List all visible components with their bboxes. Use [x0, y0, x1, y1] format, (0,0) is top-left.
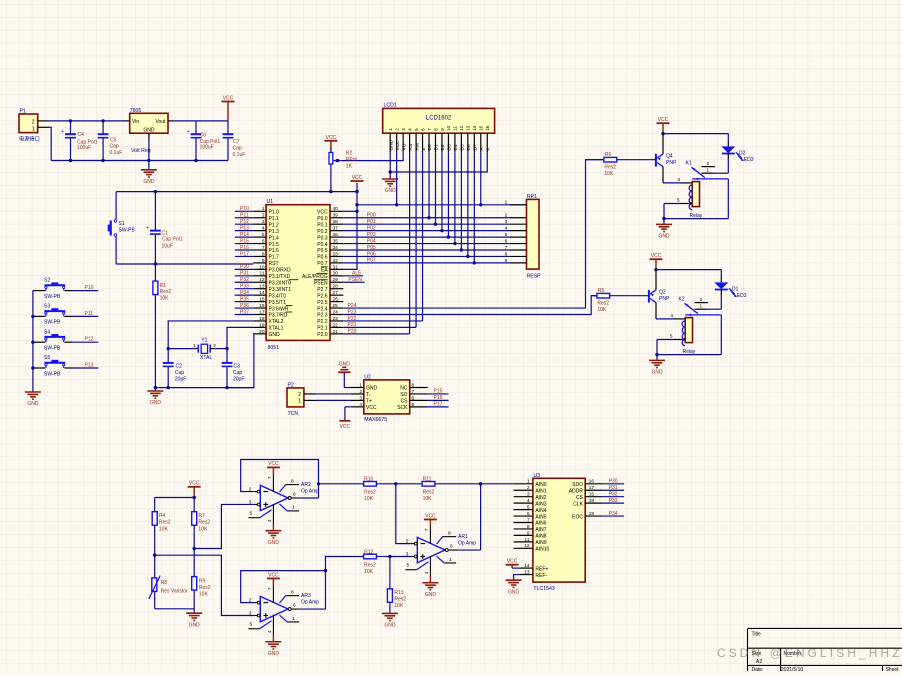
svg-text:P3.3/INT1: P3.3/INT1 — [269, 287, 292, 293]
svg-text:D0: D0 — [427, 144, 433, 150]
svg-text:100uF: 100uF — [77, 145, 91, 151]
svg-text:CS: CS — [576, 495, 584, 501]
svg-text:P1.1: P1.1 — [269, 216, 280, 222]
svg-text:26: 26 — [333, 297, 339, 303]
svg-text:6: 6 — [505, 238, 508, 244]
svg-text:P2.2: P2.2 — [317, 319, 328, 325]
potentiometer R2 — [324, 135, 357, 192]
wire bridge right tap to AR2 — [193, 504, 255, 550]
svg-text:XTAL1: XTAL1 — [269, 326, 284, 332]
svg-text:GND: GND — [143, 128, 155, 134]
op-amp AR2 — [248, 461, 319, 546]
net labels P2 control bus — [348, 303, 357, 335]
svg-text:34: 34 — [333, 245, 339, 251]
svg-text:1: 1 — [707, 167, 710, 173]
ground REF- — [506, 575, 522, 596]
svg-text:R7: R7 — [198, 513, 205, 519]
svg-text:23: 23 — [333, 316, 339, 322]
wire VCC rail from 7805 Vout — [174, 120, 228, 122]
svg-text:11: 11 — [453, 126, 458, 131]
svg-text:GND: GND — [508, 589, 520, 595]
svg-text:P2.3: P2.3 — [317, 313, 328, 319]
wires U1 P1.x pins — [235, 211, 253, 256]
ground 7805 — [141, 170, 157, 185]
svg-text:GND: GND — [425, 592, 437, 598]
svg-text:GND: GND — [385, 188, 397, 194]
svg-text:27: 27 — [333, 290, 339, 296]
svg-text:VCC: VCC — [366, 405, 377, 411]
svg-text:P15: P15 — [434, 389, 443, 395]
junction LCD gnd — [389, 170, 392, 173]
svg-text:10: 10 — [446, 125, 451, 131]
net labels U1 left P3 bus — [240, 264, 249, 315]
svg-text:电源接口: 电源接口 — [19, 135, 40, 143]
wire U1 pin20 GND down — [227, 334, 254, 388]
power VCC relay K1 — [657, 117, 670, 134]
net labels U1 left P1 bus — [240, 206, 249, 257]
svg-text:D3: D3 — [447, 144, 453, 150]
relay K2 contacts — [679, 296, 722, 316]
switch S1 — [108, 192, 136, 264]
svg-text:Q4: Q4 — [666, 154, 673, 160]
svg-text:6: 6 — [420, 128, 425, 131]
svg-text:R5: R5 — [598, 288, 605, 294]
wire R10 R11 node to AR1 pin2 — [394, 482, 422, 544]
wire bridge left tap to AR3 — [153, 554, 254, 616]
svg-text:P1.7: P1.7 — [269, 255, 280, 261]
svg-text:C6: C6 — [200, 132, 207, 138]
wire LCD RW down to P21 — [415, 152, 417, 327]
wire LCD D6 down to P06 — [467, 152, 469, 256]
svg-text:GND: GND — [388, 139, 394, 150]
svg-text:D2: D2 — [440, 144, 446, 150]
svg-text:6: 6 — [527, 511, 530, 517]
svg-text:D6: D6 — [466, 144, 472, 150]
svg-text:GND: GND — [268, 651, 280, 657]
svg-text:5: 5 — [670, 334, 673, 340]
wires U2 SPI nets — [428, 394, 449, 407]
svg-text:R12: R12 — [364, 549, 373, 555]
svg-text:VCC: VCC — [340, 424, 351, 430]
wire P2 to MAX6675 T+ — [316, 399, 351, 401]
svg-text:SW-PB: SW-PB — [44, 294, 61, 300]
junction dots input stage — [69, 119, 72, 122]
svg-text:8: 8 — [291, 590, 294, 596]
svg-text:P3.6/WR: P3.6/WR — [269, 306, 289, 312]
svg-text:GND: GND — [27, 401, 39, 407]
svg-text:5: 5 — [505, 232, 508, 238]
svg-text:7: 7 — [427, 128, 432, 131]
svg-text:LED3: LED3 — [734, 293, 747, 299]
capacitor C3 — [222, 349, 245, 388]
svg-text:VCC: VCC — [268, 572, 279, 578]
svg-text:4: 4 — [505, 226, 508, 232]
svg-text:AIN6: AIN6 — [535, 521, 546, 527]
svg-text:MAX6675: MAX6675 — [364, 417, 387, 423]
switch S4 — [33, 329, 98, 351]
svg-text:10: 10 — [259, 264, 265, 270]
svg-text:+: + — [187, 129, 190, 135]
svg-text:22: 22 — [333, 322, 339, 328]
svg-text:1: 1 — [449, 557, 452, 563]
svg-text:P33: P33 — [609, 498, 618, 504]
svg-text:3: 3 — [359, 395, 362, 401]
svg-text:D1: D1 — [434, 144, 440, 150]
svg-text:5: 5 — [262, 232, 265, 238]
svg-text:VCC: VCC — [317, 210, 328, 216]
svg-text:C4: C4 — [78, 132, 85, 138]
svg-text:C5: C5 — [110, 137, 117, 143]
svg-text:ADDR: ADDR — [569, 488, 584, 494]
relay K1 coil — [663, 177, 703, 219]
svg-text:2021/5/10: 2021/5/10 — [781, 667, 803, 671]
wire bridge bottom rail — [155, 608, 195, 610]
svg-text:P2.1: P2.1 — [317, 326, 328, 332]
svg-text:D1: D1 — [732, 286, 739, 292]
svg-text:10uF: 10uF — [162, 243, 173, 249]
svg-text:3: 3 — [249, 610, 252, 616]
net labels P15 P16 P17 — [434, 389, 443, 408]
svg-text:4: 4 — [359, 402, 362, 408]
svg-text:P1.2: P1.2 — [269, 222, 280, 228]
svg-text:AIN10: AIN10 — [535, 547, 549, 553]
svg-text:1: 1 — [32, 126, 35, 132]
svg-text:LCD1602: LCD1602 — [426, 115, 452, 121]
svg-text:15: 15 — [589, 492, 595, 498]
svg-text:AIN0: AIN0 — [535, 482, 546, 488]
wire LCD D5 down to P05 — [460, 152, 462, 250]
wire LCD D0 down to P00 — [428, 152, 430, 217]
svg-text:GND: GND — [339, 361, 351, 367]
svg-text:32: 32 — [333, 258, 339, 264]
svg-text:Cap: Cap — [175, 370, 184, 376]
svg-text:Res2: Res2 — [394, 596, 406, 602]
svg-text:E: E — [421, 147, 427, 150]
svg-text:P1.5: P1.5 — [269, 242, 280, 248]
ground switch rail — [25, 392, 41, 407]
svg-text:SO: SO — [400, 392, 407, 398]
svg-text:8: 8 — [433, 128, 438, 131]
svg-text:AIN9: AIN9 — [535, 540, 546, 546]
svg-text:R11: R11 — [423, 477, 432, 483]
wire AR2 feedback loop — [241, 460, 320, 499]
svg-text:Res2: Res2 — [159, 519, 171, 525]
svg-text:39: 39 — [333, 213, 339, 219]
svg-text:1: 1 — [505, 200, 508, 206]
wire from P1 pin1 down to ground rail — [50, 127, 51, 160]
svg-text:Q2: Q2 — [659, 290, 666, 296]
svg-text:2: 2 — [707, 161, 710, 167]
capacitor C1 — [146, 192, 183, 264]
svg-text:10K: 10K — [394, 603, 404, 609]
svg-text:1: 1 — [193, 343, 196, 349]
svg-text:Vout: Vout — [155, 119, 166, 125]
svg-text:R8: R8 — [161, 580, 168, 586]
svg-text:21: 21 — [333, 329, 339, 335]
svg-text:AIN2: AIN2 — [535, 495, 546, 501]
connector P1 — [19, 109, 50, 143]
svg-text:SW-PB: SW-PB — [119, 228, 136, 234]
wires U3 SPI nets — [603, 484, 625, 516]
svg-text:VO: VO — [401, 143, 407, 150]
svg-text:13: 13 — [524, 569, 530, 575]
svg-text:15: 15 — [259, 297, 265, 303]
svg-text:EOC: EOC — [572, 514, 583, 520]
svg-text:5: 5 — [250, 622, 253, 628]
power VCC REF+ — [506, 559, 520, 568]
wire LCD RS down to P20 — [409, 152, 411, 334]
svg-text:VCC: VCC — [507, 559, 518, 565]
svg-text:14: 14 — [524, 563, 530, 569]
wire 7805 GND pin down — [148, 140, 150, 170]
adc U3 TLC1543 — [514, 473, 603, 592]
svg-text:10K: 10K — [604, 171, 614, 177]
svg-text:S1: S1 — [119, 221, 125, 227]
svg-text:2: 2 — [406, 539, 409, 545]
svg-text:P31: P31 — [609, 485, 618, 491]
svg-text:6: 6 — [293, 602, 296, 608]
svg-text:16: 16 — [589, 479, 595, 485]
svg-text:Cap: Cap — [233, 370, 242, 376]
svg-text:P30: P30 — [609, 479, 618, 485]
svg-text:5: 5 — [527, 505, 530, 511]
svg-text:Vin: Vin — [132, 119, 139, 125]
svg-text:D2: D2 — [739, 150, 746, 156]
svg-text:C2: C2 — [176, 363, 183, 369]
svg-text:13: 13 — [466, 125, 471, 131]
svg-text:2: 2 — [505, 213, 508, 219]
ground R13 — [382, 613, 398, 628]
resistor R9 — [192, 577, 211, 609]
svg-text:D4: D4 — [453, 144, 459, 150]
svg-text:GND: GND — [269, 332, 281, 338]
svg-text:10K: 10K — [199, 592, 209, 598]
svg-text:3: 3 — [262, 219, 265, 225]
svg-text:18: 18 — [259, 316, 265, 322]
svg-text:10K: 10K — [423, 496, 433, 502]
svg-text:8: 8 — [527, 524, 530, 530]
svg-text:Res2: Res2 — [364, 562, 376, 568]
svg-text:P13: P13 — [85, 363, 94, 369]
wire XTAL2 from U1 pin18 — [168, 321, 253, 349]
wire LCD VCC pin2 down — [396, 152, 398, 205]
relay K2 coil — [656, 313, 696, 355]
svg-text:P1.0: P1.0 — [269, 210, 280, 216]
svg-text:VCC: VCC — [268, 461, 279, 467]
wire bridge top rail — [155, 497, 195, 499]
svg-text:100uF: 100uF — [200, 145, 214, 151]
svg-text:P16: P16 — [434, 395, 443, 401]
svg-text:5: 5 — [412, 402, 415, 408]
wire LCD D4 down to P04 — [454, 152, 456, 243]
svg-text:Op Amp: Op Amp — [458, 541, 476, 547]
svg-text:2: 2 — [700, 297, 703, 303]
wire VIN rail from P1 pin2 — [50, 120, 124, 122]
title block — [748, 628, 902, 672]
thermo connector P2 — [287, 382, 316, 417]
svg-text:4: 4 — [670, 313, 673, 319]
svg-text:P32: P32 — [609, 491, 618, 497]
svg-text:20pF: 20pF — [233, 377, 244, 383]
wire AR1 output to ADC — [458, 482, 483, 550]
wire LCD E down to P22 — [422, 152, 424, 321]
wire U1 pin40 VCC — [343, 210, 357, 212]
svg-text:25: 25 — [333, 303, 339, 309]
relay K1 contacts — [686, 160, 729, 180]
ground above U2 — [338, 361, 351, 387]
net labels P30-P34 — [609, 479, 618, 517]
svg-text:SDO: SDO — [572, 482, 583, 488]
svg-text:S2: S2 — [44, 278, 50, 284]
wire ALE stub — [343, 275, 363, 277]
svg-text:P2.4: P2.4 — [317, 306, 328, 312]
svg-text:9: 9 — [262, 258, 265, 264]
svg-text:R6: R6 — [605, 152, 612, 158]
svg-text:ALE/PROG: ALE/PROG — [302, 274, 328, 280]
svg-text:Title: Title — [752, 631, 761, 637]
svg-text:CS: CS — [401, 399, 409, 405]
svg-text:Cap Pol1: Cap Pol1 — [162, 237, 183, 243]
wire LCD D2 down to P02 — [441, 152, 443, 230]
power VCC top right of supply — [222, 95, 235, 121]
svg-text:T-: T- — [366, 392, 371, 398]
svg-text:AR2: AR2 — [301, 482, 311, 488]
svg-text:1: 1 — [298, 399, 301, 405]
svg-text:P3.4/T0: P3.4/T0 — [269, 293, 287, 299]
svg-text:12: 12 — [259, 277, 265, 283]
svg-text:Res2: Res2 — [199, 585, 211, 591]
varistor R8 — [149, 576, 188, 609]
svg-text:33: 33 — [333, 251, 339, 257]
svg-text:GND: GND — [366, 386, 378, 392]
svg-text:R1: R1 — [160, 283, 167, 289]
svg-text:P3.0/RXD: P3.0/RXD — [269, 268, 292, 274]
svg-text:4: 4 — [407, 128, 412, 131]
svg-text:T+: T+ — [366, 399, 372, 405]
svg-text:GND: GND — [143, 179, 155, 185]
power VCC relay K2 — [650, 253, 663, 270]
svg-text:P3.2/INT0: P3.2/INT0 — [269, 280, 292, 286]
svg-text:AIN8: AIN8 — [535, 534, 546, 540]
svg-text:GND: GND — [384, 623, 396, 629]
svg-text:C3: C3 — [234, 363, 241, 369]
svg-text:14: 14 — [259, 290, 265, 296]
svg-text:8: 8 — [262, 251, 265, 257]
svg-text:P1.4: P1.4 — [269, 235, 280, 241]
svg-text:CLK: CLK — [573, 501, 583, 507]
svg-text:VCC: VCC — [425, 513, 436, 519]
ic U2 MAX6675 — [351, 374, 428, 423]
svg-text:P12: P12 — [85, 337, 94, 343]
svg-text:7: 7 — [527, 517, 530, 523]
svg-text:10K: 10K — [364, 569, 374, 575]
svg-text:16: 16 — [485, 125, 490, 131]
svg-text:AR3: AR3 — [301, 593, 311, 599]
svg-text:Op Amp: Op Amp — [301, 600, 319, 606]
wire relay K2 common to ground — [655, 315, 721, 356]
wire P21 row to LCD RW — [343, 326, 416, 328]
svg-text:8: 8 — [291, 479, 294, 485]
svg-text:Date:: Date: — [752, 667, 764, 671]
svg-text:P34: P34 — [609, 511, 618, 517]
svg-text:10K: 10K — [159, 527, 169, 533]
svg-text:31: 31 — [333, 264, 339, 270]
svg-text:3: 3 — [401, 128, 406, 131]
wire LCD VO to pot — [342, 152, 403, 160]
svg-text:19: 19 — [259, 322, 265, 328]
svg-text:2: 2 — [262, 213, 265, 219]
svg-text:2: 2 — [394, 128, 399, 131]
svg-text:18: 18 — [589, 498, 595, 504]
svg-text:3: 3 — [249, 499, 252, 505]
svg-text:R10: R10 — [364, 477, 373, 483]
svg-text:GND: GND — [651, 370, 663, 376]
svg-text:1: 1 — [527, 479, 530, 485]
svg-text:P2.7: P2.7 — [317, 287, 328, 293]
svg-text:GND: GND — [268, 540, 280, 546]
led D2 — [721, 134, 753, 174]
svg-text:AIN4: AIN4 — [535, 508, 546, 514]
svg-text:19: 19 — [589, 511, 595, 517]
wire relay K2 VCC node — [654, 268, 721, 271]
resistor R10 — [319, 477, 396, 502]
mcu U1 8051 body — [266, 199, 330, 351]
resistor R11 — [422, 477, 513, 502]
svg-text:D7: D7 — [473, 144, 479, 150]
svg-text:Cap: Cap — [233, 145, 242, 151]
capacitor C2 — [163, 349, 187, 388]
wire LCD A pin15 down — [480, 152, 482, 205]
svg-text:P0.7: P0.7 — [317, 261, 328, 267]
wire P20 row to LCD RS — [343, 333, 409, 335]
capacitor C5 — [98, 121, 123, 161]
svg-text:1: 1 — [700, 303, 703, 309]
resistor R5 — [591, 288, 649, 313]
op-amp AR3 — [248, 572, 319, 657]
svg-text:4: 4 — [677, 177, 680, 183]
svg-text:D5: D5 — [460, 144, 466, 150]
svg-text:10K: 10K — [597, 307, 607, 313]
power VCC bridge — [188, 481, 201, 500]
svg-text:P10: P10 — [85, 285, 94, 291]
svg-text:P2.0: P2.0 — [317, 332, 328, 338]
svg-text:3: 3 — [406, 551, 409, 557]
led D1 — [714, 270, 746, 310]
svg-text:P11: P11 — [85, 311, 94, 317]
svg-text:P2.5: P2.5 — [317, 300, 328, 306]
crystal Y1 — [167, 337, 229, 361]
svg-text:VCC: VCC — [352, 175, 363, 181]
svg-text:REF+: REF+ — [535, 566, 548, 572]
svg-text:3: 3 — [505, 219, 508, 225]
svg-text:SW-PB: SW-PB — [44, 371, 61, 377]
svg-text:17: 17 — [589, 485, 595, 491]
svg-text:Y1: Y1 — [201, 337, 207, 343]
svg-text:CSDN @ENGLISH_HHZ: CSDN @ENGLISH_HHZ — [717, 646, 902, 660]
wire P24 row to relay driver R6 — [343, 160, 604, 308]
lcd LCD1 pins — [388, 125, 491, 152]
svg-text:VCC: VCC — [651, 253, 662, 259]
svg-text:9: 9 — [440, 128, 445, 131]
svg-text:Res2: Res2 — [198, 519, 210, 525]
svg-text:7: 7 — [412, 389, 415, 395]
wire LCD D1 down to P01 — [434, 152, 436, 224]
svg-text:9: 9 — [527, 530, 530, 536]
svg-text:40: 40 — [333, 206, 339, 212]
svg-text:VCC: VCC — [223, 95, 234, 101]
junctions on VCC drop — [355, 203, 358, 213]
switch S3 — [33, 304, 98, 326]
